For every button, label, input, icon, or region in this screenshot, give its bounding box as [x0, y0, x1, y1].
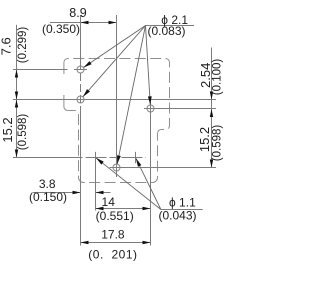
svg-text:8.9: 8.9: [69, 6, 86, 20]
svg-text:17.8: 17.8: [101, 228, 125, 242]
svg-text:(0.598): (0.598): [17, 114, 29, 151]
svg-text:(0.150): (0.150): [29, 190, 67, 204]
svg-text:ϕ 1.1: ϕ 1.1: [169, 196, 196, 210]
svg-text:15.2: 15.2: [197, 127, 212, 152]
svg-text:(0.299): (0.299): [17, 27, 29, 64]
svg-text:(0.350): (0.350): [42, 22, 80, 36]
svg-text:(0.598): (0.598): [212, 125, 224, 162]
svg-text:(0. 201): (0. 201): [88, 248, 137, 262]
svg-text:(0.100): (0.100): [212, 59, 224, 96]
svg-text:(0.043): (0.043): [158, 209, 196, 223]
svg-text:14: 14: [102, 195, 116, 209]
svg-text:7.6: 7.6: [0, 37, 14, 55]
svg-text:3.8: 3.8: [39, 177, 56, 191]
svg-text:(0.083): (0.083): [147, 24, 185, 38]
svg-text:15.2: 15.2: [0, 117, 15, 142]
svg-text:(0.551): (0.551): [96, 209, 134, 223]
